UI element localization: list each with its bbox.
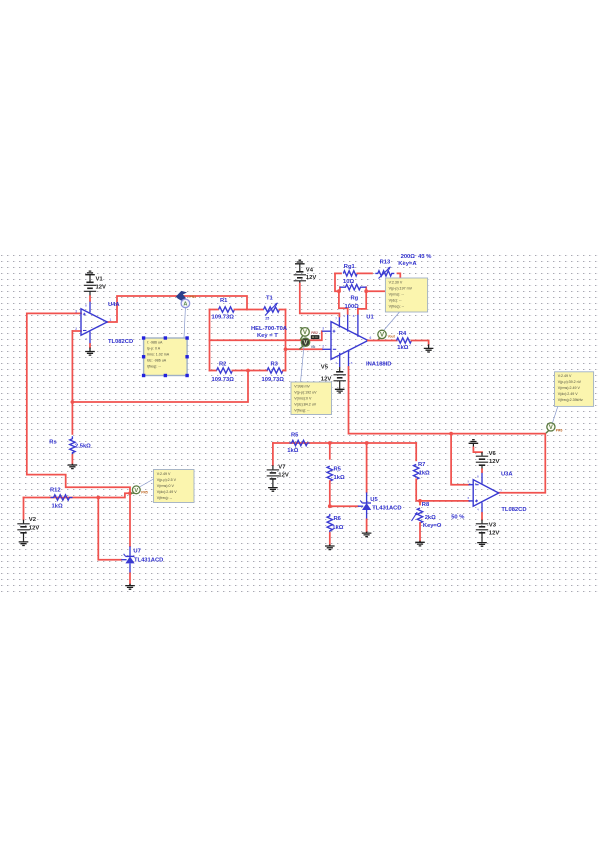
label U4A [108,302,120,308]
label V5 [321,365,329,371]
label Rs value [75,443,91,449]
svg-text:V3: V3 [489,523,497,529]
svg-text:V1: V1 [96,277,104,283]
svg-text:V4: V4 [306,267,314,273]
resistor R4 [397,338,412,343]
label U7 part [134,557,163,563]
svg-text:V:998 mV: V:998 mV [294,384,310,388]
leader PR5 to note [140,479,154,487]
probe PR2 text tag [311,331,320,339]
svg-text:1kΩ: 1kΩ [334,475,345,481]
svg-text:V: V [549,425,553,431]
svg-text:50 %: 50 % [451,514,464,520]
wire U7 ref [98,498,126,560]
svg-text:Key=O: Key=O [423,523,442,529]
battery V5 [334,367,346,393]
svg-text:12V: 12V [278,473,289,479]
svg-text:V: V [134,488,138,494]
svg-text:V2: V2 [29,517,37,523]
svg-text:V:2.49 V: V:2.49 V [157,472,171,476]
svg-text:V(p-p):39.2 nV: V(p-p):39.2 nV [558,380,582,384]
label R13 value [401,254,432,260]
label R6 value [332,525,343,531]
svg-text:V(freq): --: V(freq): -- [294,408,310,412]
probe PR2 [300,328,310,340]
wire rail to U3A inverting input [451,434,468,485]
svg-text:U1: U1 [366,315,374,321]
svg-text:R1: R1 [220,298,228,304]
op-amp U4A [75,301,111,345]
wire Rg right junction [358,287,368,313]
svg-text:1kΩ: 1kΩ [287,448,298,454]
svg-text:Key=A: Key=A [398,261,417,267]
wire R5 rail [273,441,416,445]
label Rg value [345,304,360,310]
svg-text:2: 2 [322,344,324,348]
svg-text:TL082CD: TL082CD [501,507,526,513]
svg-text:R4: R4 [399,331,407,337]
svg-text:R8: R8 [422,502,430,508]
resistor Rg1 [335,271,372,276]
leader PR6 to note [553,406,558,422]
label V7 [278,464,286,470]
label R5v value [334,475,345,481]
label R5v [334,466,342,472]
label V3 12V [489,530,500,536]
svg-text:1: 1 [110,318,112,322]
svg-text:V(rms):0 V: V(rms):0 V [157,484,175,488]
wire U1 output [368,340,397,342]
label R3 [271,362,279,368]
svg-text:R5: R5 [334,466,342,472]
svg-text:109.73Ω: 109.73Ω [212,315,235,321]
svg-text:V(dc):2.49 V: V(dc):2.49 V [558,392,579,396]
svg-text:V(rms): --: V(rms): -- [389,292,405,296]
svg-text:Ip-p: 0 A: Ip-p: 0 A [147,346,161,350]
svg-text:200Ω 43 %: 200Ω 43 % [401,254,432,260]
wire bridge right rail [246,310,287,373]
label R1 [220,298,228,304]
wire U4A inverting input stub [72,330,81,332]
label T1 [266,296,274,302]
svg-text:2.5kΩ: 2.5kΩ [75,443,91,449]
label PR6 tag [556,429,563,433]
label U7 [133,549,140,555]
label Rg1 value [343,279,354,285]
resistor R1 [210,307,248,312]
resistor R6 [327,514,332,545]
svg-text:109.73Ω: 109.73Ω [212,377,235,383]
label T1 part [251,326,288,332]
potentiometer R8 [412,501,423,541]
svg-text:10Ω: 10Ω [343,279,354,285]
label R13 [380,260,391,266]
label V7 12V [278,473,289,479]
label R2 [219,362,226,368]
svg-text:PR1: PR1 [190,295,197,299]
label R4 value [397,345,408,351]
svg-text:V(rms):0 V: V(rms):0 V [294,396,312,400]
wire R12 net [24,491,132,499]
svg-text:HEL-700-T0A: HEL-700-T0A [251,326,288,332]
svg-text:V(dc): --: V(dc): -- [389,298,403,302]
shunt regulator U5 [360,443,371,532]
label U1 part [366,361,391,367]
svg-text:INA188ID: INA188ID [366,361,391,367]
svg-text:Rg1: Rg1 [344,264,356,270]
svg-text:12V: 12V [321,377,332,383]
leader current probe to note [184,308,185,338]
note box current probe [142,336,189,377]
svg-text:PR5: PR5 [141,491,148,495]
leader Vb probe to note [301,346,305,382]
battery V2 [17,498,29,546]
resistor R3 [248,368,286,373]
op-amp U3A [468,472,503,513]
label U5 [370,497,378,503]
probe PR6 [546,423,555,433]
wire U5 ref [330,505,363,507]
svg-text:R13: R13 [380,260,391,266]
svg-text:V(p-p):197 mV: V(p-p):197 mV [389,286,413,290]
label T1 25 [265,316,269,320]
svg-text:I(freq): --: I(freq): -- [147,364,162,368]
label Rg1 [344,264,356,270]
label R12 [50,488,61,494]
svg-text:I: -986 uA: I: -986 uA [147,340,163,344]
op-amp U1 INA188 [322,313,371,367]
label V4 [306,267,314,273]
svg-text:V(p-p):192 uV: V(p-p):192 uV [294,390,317,394]
svg-text:1kΩ: 1kΩ [397,345,408,351]
label R8 key [423,523,442,529]
wire U1 REF rail [349,367,546,493]
shunt regulator U7 [124,546,135,584]
wire U4A output to bridge top [107,296,247,322]
resistor R12 [51,495,73,500]
thermistor T1 [247,303,286,316]
label R13 key [398,261,417,267]
wire bridge left rail [209,310,211,371]
svg-text:12V: 12V [489,530,500,536]
svg-text:R5: R5 [291,433,299,439]
label R1 value [212,315,235,321]
label V3 [489,523,497,529]
label R8 percent [451,514,464,520]
ground R6 [325,545,335,550]
resistor Rg [340,285,367,290]
wire bridge right tap to INA minus [286,348,332,350]
svg-text:A: A [183,302,187,308]
svg-text:2: 2 [75,327,77,331]
svg-text:V:2.30 V: V:2.30 V [389,280,403,284]
wire bridge mid to INA plus [210,331,332,340]
label R8 value [425,515,436,521]
wire Rg left junction [335,273,348,313]
svg-text:12V: 12V [489,459,500,465]
svg-text:V6: V6 [489,451,497,457]
label V6 12V [489,459,500,465]
svg-text:3: 3 [75,309,77,313]
label V2 12V [29,525,40,531]
label V1 12V [96,285,107,291]
ground U4A [85,344,95,355]
label R5h [291,433,299,439]
label R2 value [212,377,235,383]
svg-text:109.73Ω: 109.73Ω [262,377,285,383]
svg-text:PR6: PR6 [556,429,563,433]
svg-text:V5: V5 [321,365,329,371]
svg-text:Vout: Vout [388,335,396,339]
svg-text:V(rms):2.49 V: V(rms):2.49 V [558,386,581,390]
svg-text:6: 6 [370,336,372,340]
svg-text:V(freq):2.39kHz: V(freq):2.39kHz [558,398,583,402]
label Vout probe tag [388,335,396,339]
svg-text:12V: 12V [29,525,40,531]
svg-text:100Ω: 100Ω [345,304,360,310]
label U1 [366,315,374,321]
svg-text:12V: 12V [96,285,107,291]
svg-text:Rg: Rg [351,296,359,302]
resistor R7 [414,443,421,501]
note box Vout probe [385,278,427,312]
svg-text:U3A: U3A [501,471,513,477]
label R8 [422,502,430,508]
svg-text:R3: R3 [271,362,279,368]
probe PR5 [131,486,140,494]
potentiometer R13 [366,267,400,291]
label T1 key [257,333,278,339]
label V1 [96,277,104,283]
svg-text:Irms: 1.02 mA: Irms: 1.02 mA [147,352,170,356]
label R3 value [262,377,285,383]
svg-text:2kΩ: 2kΩ [425,515,436,521]
wire U7 cathode [129,493,131,546]
wire R4 to ground [412,341,429,345]
svg-text:R6: R6 [334,516,342,522]
battery V3 [476,513,488,546]
label Vb [311,345,316,349]
label R7 [418,462,425,468]
label V4 12V [306,275,317,281]
label Rg [351,296,359,302]
label R12 value [52,504,63,510]
svg-text:T1: T1 [266,296,274,302]
wire bridge bottom feedback to U4A inverting input [71,331,249,434]
label R7 value [419,470,430,476]
label U3A [501,471,513,477]
svg-text:V(dc):2.49 V: V(dc):2.49 V [157,490,178,494]
svg-text:V(p-p):2.5 V: V(p-p):2.5 V [157,478,177,482]
resistor R2 [210,368,249,373]
svg-text:1kΩ: 1kΩ [419,470,430,476]
svg-text:1kΩ: 1kΩ [332,525,343,531]
resistor Rs [70,436,75,464]
wire divider to U3A plus [418,499,468,503]
svg-text:R2: R2 [219,362,226,368]
label R4 [399,331,407,337]
leader Vout note to probe [384,312,400,331]
svg-text:3: 3 [322,326,324,330]
label U5 part [372,506,401,512]
svg-text:R7: R7 [418,462,425,468]
svg-text:U7: U7 [133,549,140,555]
battery V7 [267,443,279,491]
svg-text:V7: V7 [278,464,286,470]
wire V4 to U1 V+ [300,284,340,317]
current probe PR1 [176,291,196,308]
svg-text:U5: U5 [370,497,378,503]
label V5 12V [321,377,332,383]
svg-text:25: 25 [265,316,269,320]
svg-text:V(dc):84.2 uV: V(dc):84.2 uV [294,402,317,406]
battery V6 [469,440,489,472]
label V6 [489,451,497,457]
ground R4 [424,344,434,352]
ground U5 [362,532,372,537]
resistor R5 vertical [327,443,332,508]
svg-text:1kΩ: 1kΩ [52,504,63,510]
ground R8 [415,541,425,546]
resistor R5 horizontal [290,440,310,445]
svg-text:V:2.49 V: V:2.49 V [558,374,572,378]
svg-text:TL082CD: TL082CD [108,339,133,345]
svg-text:Rs: Rs [49,440,56,446]
battery V4 [294,260,306,283]
svg-text:V(freq): --: V(freq): -- [157,496,173,500]
label PR5 tag [141,491,148,495]
ground U7 [125,584,135,589]
svg-text:TL431ACD: TL431ACD [134,557,163,563]
svg-text:Key = T: Key = T [257,333,278,339]
svg-text:12V: 12V [306,275,317,281]
svg-text:Idc: -986 uA: Idc: -986 uA [147,358,167,362]
label V2 [29,517,37,523]
label U3A part [501,507,526,513]
svg-text:TL431ACD: TL431ACD [372,506,401,512]
probe Vb [299,338,309,349]
wire U4A noninverting input from reference net [27,313,130,493]
probe Vout [378,330,386,340]
label Rs [49,440,56,446]
note box rail probe [555,372,594,407]
battery V1 [84,271,96,301]
note box PR5 [154,470,195,503]
note box Vb [291,382,332,415]
svg-text:R12: R12 [50,488,61,494]
svg-text:U4A: U4A [108,302,120,308]
svg-text:Vb: Vb [311,345,316,349]
svg-text:V(freq): --: V(freq): -- [389,304,405,308]
label R6 [334,516,342,522]
label TL082CD U4A [108,339,133,345]
ground Rs [68,464,78,469]
svg-text:PR2: PR2 [311,331,318,335]
label R5h value [287,448,298,454]
